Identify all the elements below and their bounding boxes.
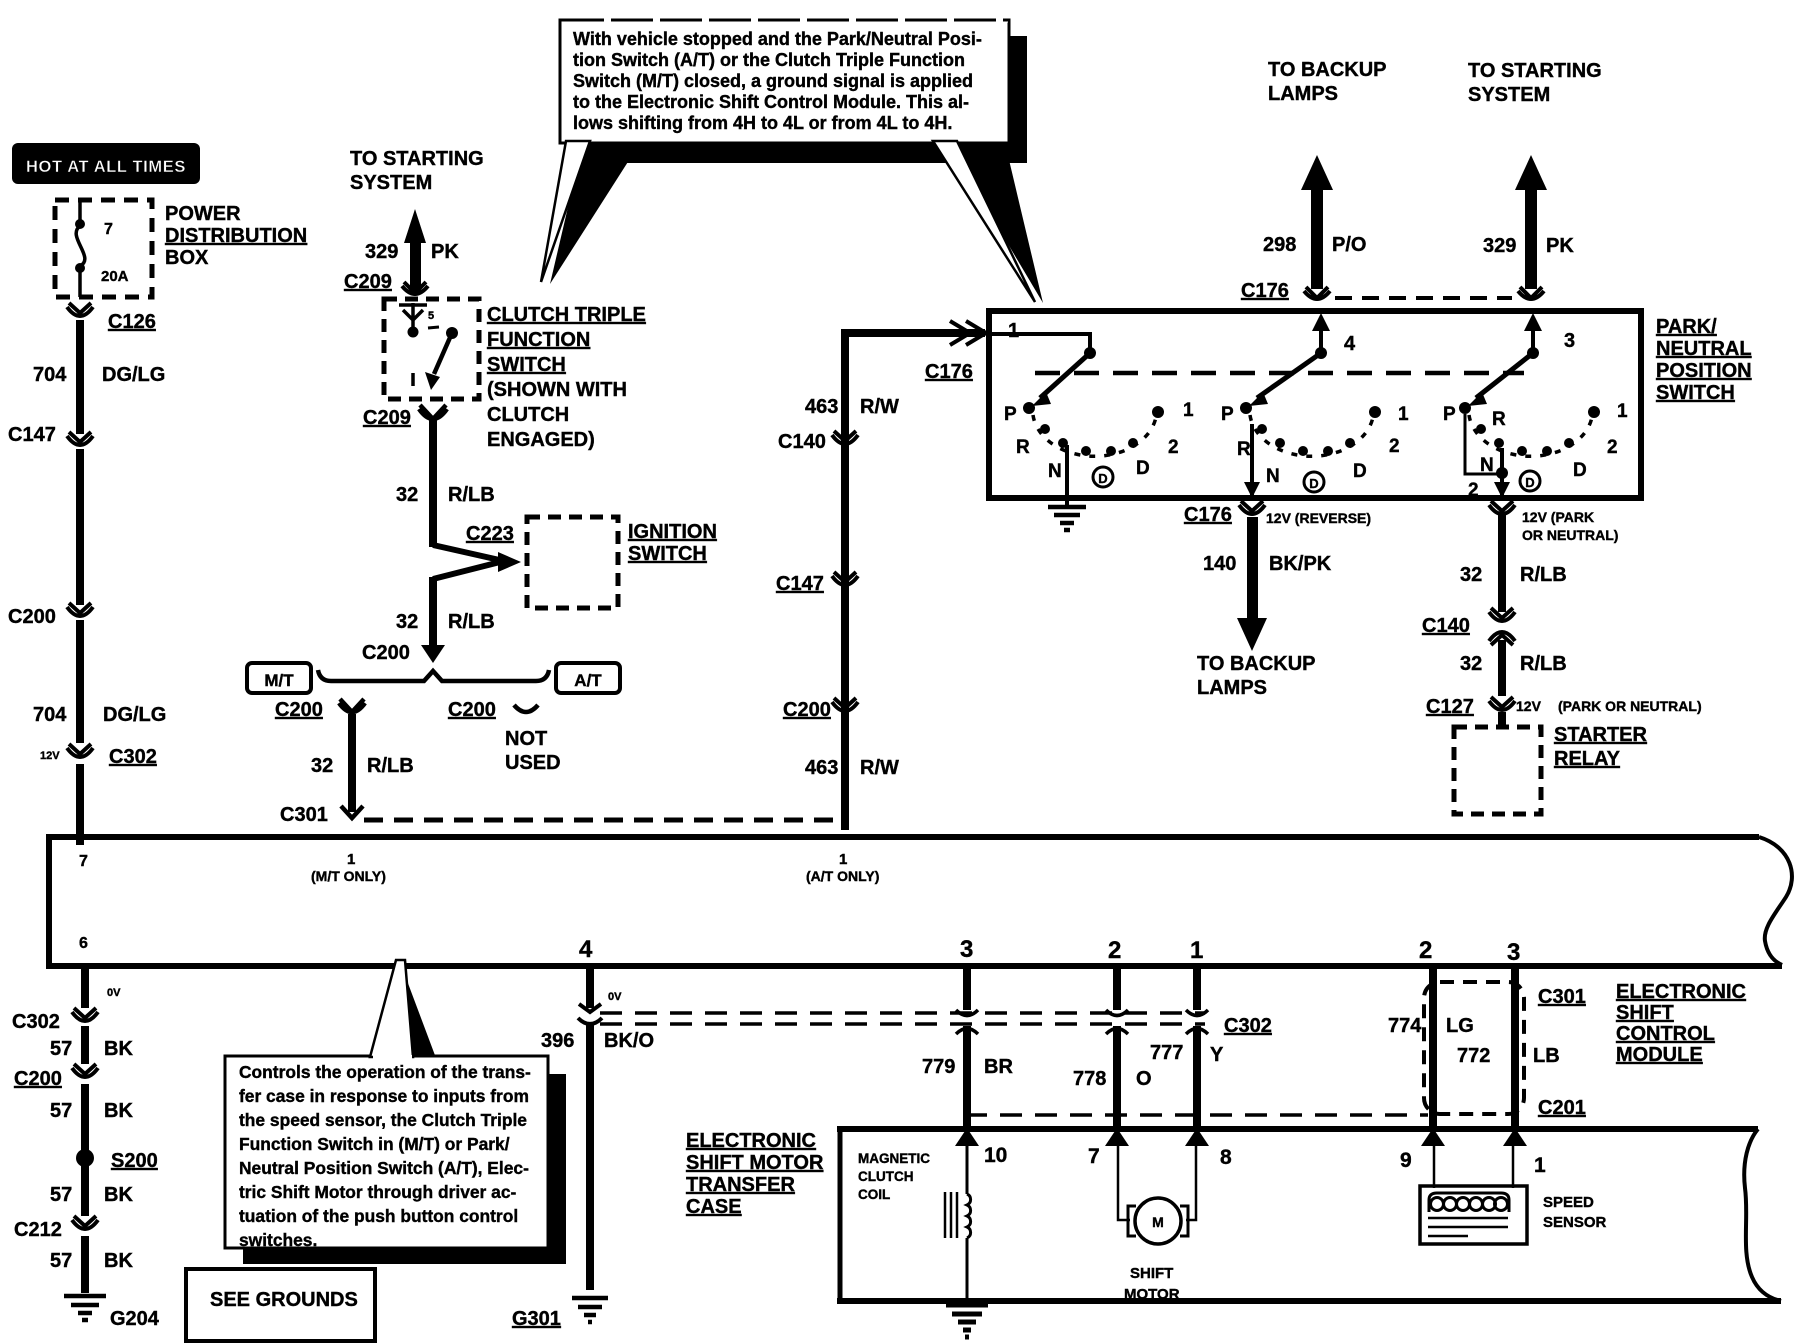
svg-text:SEE GROUNDS: SEE GROUNDS — [210, 1289, 358, 1311]
connector C209 bottom — [363, 405, 447, 429]
svg-text:32: 32 — [1460, 653, 1482, 675]
svg-text:32: 32 — [396, 484, 418, 506]
svg-text:9: 9 — [1400, 1149, 1412, 1172]
svg-text:7: 7 — [1088, 1145, 1100, 1168]
svg-text:fer case in response to inputs: fer case in response to inputs from — [239, 1086, 529, 1106]
svg-text:C200: C200 — [8, 606, 56, 628]
svg-text:2: 2 — [1419, 937, 1432, 964]
dashed connector face C201 lower — [965, 1113, 1428, 1117]
svg-text:298: 298 — [1263, 234, 1296, 256]
svg-text:ENGAGED): ENGAGED) — [487, 429, 595, 451]
wire 32 R/LB M/T branch — [280, 714, 414, 826]
svg-text:396: 396 — [541, 1030, 574, 1052]
svg-text:switches.: switches. — [239, 1230, 317, 1250]
svg-text:R/LB: R/LB — [448, 611, 495, 633]
splice S200 — [76, 1149, 158, 1172]
svg-text:D: D — [1309, 476, 1318, 491]
svg-text:BK: BK — [104, 1250, 133, 1272]
svg-text:57: 57 — [50, 1038, 72, 1060]
svg-text:704: 704 — [33, 364, 67, 386]
wire segment to C200 — [76, 449, 84, 605]
wire 32 R/LB lower right — [1460, 640, 1567, 696]
svg-text:BK/O: BK/O — [604, 1030, 654, 1052]
svg-text:M/T: M/T — [264, 671, 294, 690]
connector C302 below module — [12, 1008, 98, 1033]
svg-text:POWER: POWER — [165, 203, 241, 225]
svg-text:R/W: R/W — [860, 396, 899, 418]
wire 704 DG/LG lower — [33, 620, 166, 743]
wire 778 O pin 2 — [1073, 966, 1152, 1146]
svg-text:(SHOWN WITH: (SHOWN WITH — [487, 379, 627, 401]
svg-text:to the Electronic Shift Contro: to the Electronic Shift Control Module. … — [573, 92, 969, 112]
svg-text:CLUTCH: CLUTCH — [487, 404, 569, 426]
svg-text:329: 329 — [365, 241, 398, 263]
svg-text:OR NEUTRAL): OR NEUTRAL) — [1522, 527, 1618, 543]
svg-text:7: 7 — [79, 853, 88, 870]
svg-text:4: 4 — [579, 936, 593, 963]
electronic shift control module label — [1616, 981, 1746, 1066]
svg-text:12V (PARK: 12V (PARK — [1522, 509, 1594, 525]
wire 57 BK segment 4 — [50, 1236, 133, 1293]
svg-text:C200: C200 — [448, 699, 496, 721]
wire 772 LB pin 3 right — [1457, 966, 1560, 1146]
svg-text:DISTRIBUTION: DISTRIBUTION — [165, 225, 307, 247]
rotary switch wafer 2 — [1221, 313, 1409, 498]
svg-text:C209: C209 — [344, 271, 392, 293]
svg-text:C302: C302 — [12, 1011, 60, 1033]
svg-text:NOT: NOT — [505, 728, 547, 750]
power distribution box label — [165, 203, 307, 269]
svg-text:Controls the operation of the: Controls the operation of the trans- — [239, 1062, 531, 1082]
connector C200 left — [8, 603, 93, 628]
svg-text:the speed sensor, the Clutch T: the speed sensor, the Clutch Triple — [239, 1110, 527, 1130]
svg-text:STARTER: STARTER — [1554, 724, 1648, 746]
svg-text:C147: C147 — [776, 573, 824, 595]
svg-text:2: 2 — [1468, 480, 1479, 501]
svg-text:C302: C302 — [1224, 1015, 1272, 1037]
svg-text:2: 2 — [1607, 437, 1618, 458]
wire 140 BK/PK to backup lamps — [1197, 517, 1332, 699]
svg-text:774: 774 — [1388, 1015, 1422, 1037]
ground G301 — [512, 1298, 608, 1330]
svg-text:N: N — [1048, 461, 1062, 482]
svg-text:lows shifting from 4H to 4L or: lows shifting from 4H to 4L or from 4L t… — [573, 113, 952, 133]
svg-text:P/O: P/O — [1332, 234, 1366, 256]
svg-text:7: 7 — [104, 221, 113, 238]
svg-text:C200: C200 — [275, 699, 323, 721]
svg-text:C140: C140 — [1422, 615, 1470, 637]
svg-text:SHIFT MOTOR: SHIFT MOTOR — [686, 1152, 824, 1174]
wire 57 BK segment 1 — [50, 1026, 133, 1064]
svg-text:CASE: CASE — [686, 1196, 742, 1218]
svg-text:463: 463 — [805, 757, 838, 779]
svg-text:SHIFT: SHIFT — [1130, 1265, 1173, 1282]
svg-text:PARK/: PARK/ — [1656, 316, 1717, 338]
svg-text:O: O — [1136, 1068, 1152, 1090]
speed sensor — [1420, 1142, 1607, 1244]
double dashed connector face C302 — [600, 1013, 1272, 1037]
svg-text:TRANSFER: TRANSFER — [686, 1174, 795, 1196]
svg-text:C201: C201 — [1538, 1097, 1586, 1119]
svg-text:SYSTEM: SYSTEM — [1468, 84, 1550, 106]
svg-text:R/LB: R/LB — [1520, 653, 1567, 675]
svg-text:1: 1 — [347, 851, 355, 868]
svg-text:C140: C140 — [778, 431, 826, 453]
svg-text:TO STARTING: TO STARTING — [1468, 60, 1602, 82]
electronic shift motor transfer case label — [686, 1130, 824, 1218]
svg-text:FUNCTION: FUNCTION — [487, 329, 590, 351]
svg-text:BK/PK: BK/PK — [1269, 553, 1332, 575]
svg-text:P: P — [1221, 404, 1234, 425]
svg-text:CLUTCH: CLUTCH — [858, 1169, 914, 1184]
connector C176 reverse output — [1184, 501, 1371, 526]
svg-text:1: 1 — [1183, 400, 1194, 421]
svg-text:C223: C223 — [466, 523, 514, 545]
svg-text:0V: 0V — [608, 991, 622, 1003]
fuse 7 20A — [76, 200, 85, 297]
HOT AT ALL TIMES banner — [12, 143, 200, 184]
wire 779 BR pin 3 — [922, 966, 1013, 1146]
svg-text:C209: C209 — [363, 407, 411, 429]
svg-text:1: 1 — [1008, 320, 1019, 342]
svg-text:TO BACKUP: TO BACKUP — [1268, 59, 1387, 81]
svg-text:P: P — [1004, 404, 1017, 425]
connector C127 — [1426, 696, 1702, 718]
dashed connector face C176 — [1335, 296, 1512, 300]
svg-text:MAGNETIC: MAGNETIC — [858, 1151, 930, 1166]
svg-text:D: D — [1525, 475, 1534, 490]
svg-text:DG/LG: DG/LG — [102, 364, 165, 386]
wire to starting system 329 PK — [350, 148, 484, 291]
module pin 1 M/T only — [311, 851, 386, 884]
callout note top: ground signal explanation — [541, 20, 1043, 303]
wire 57 BK chain below module pin 6 — [85, 966, 121, 1008]
svg-text:0V: 0V — [107, 987, 121, 999]
svg-text:463: 463 — [805, 396, 838, 418]
svg-text:ELECTRONIC: ELECTRONIC — [686, 1130, 816, 1152]
svg-text:32: 32 — [396, 611, 418, 633]
svg-text:CLUTCH TRIPLE: CLUTCH TRIPLE — [487, 304, 646, 326]
dashed wire C301 to A/T branch — [364, 818, 845, 823]
brace under M/T A/T — [318, 670, 549, 681]
svg-text:M: M — [1152, 1214, 1164, 1230]
wire 32 R/LB lower — [362, 577, 495, 664]
svg-text:C200: C200 — [14, 1068, 62, 1090]
svg-text:C301: C301 — [280, 804, 328, 826]
rotary switch wafer 3 — [1443, 313, 1628, 501]
A/T tag — [556, 663, 620, 693]
clutch triple function switch C209 — [384, 299, 479, 399]
svg-text:1: 1 — [1190, 937, 1203, 964]
svg-text:779: 779 — [922, 1056, 955, 1078]
svg-text:tion Switch (A/T) or the Clutc: tion Switch (A/T) or the Clutch Triple F… — [573, 50, 965, 70]
connector C200 below module — [14, 1064, 98, 1090]
connector C209 top — [344, 271, 428, 294]
wire 777 Y pin 1 — [1150, 966, 1224, 1146]
svg-text:POSITION: POSITION — [1656, 360, 1752, 382]
svg-text:tuation of the push button con: tuation of the push button control — [239, 1206, 518, 1226]
svg-text:G301: G301 — [512, 1308, 561, 1330]
connector C140 center — [778, 431, 858, 453]
svg-text:SWITCH: SWITCH — [628, 543, 707, 565]
svg-text:R: R — [1492, 409, 1506, 430]
svg-text:32: 32 — [1460, 564, 1482, 586]
svg-text:MODULE: MODULE — [1616, 1044, 1703, 1066]
svg-text:HOT AT ALL TIMES: HOT AT ALL TIMES — [26, 158, 186, 176]
svg-text:NEUTRAL: NEUTRAL — [1656, 338, 1752, 360]
wire 704 DG/LG upper — [33, 320, 165, 434]
connector C212 — [14, 1216, 98, 1241]
svg-text:tric Shift Motor through driv: tric Shift Motor through driver ac- — [239, 1182, 516, 1202]
svg-text:SENSOR: SENSOR — [1543, 1214, 1607, 1231]
svg-text:C176: C176 — [1184, 504, 1232, 526]
svg-text:DG/LG: DG/LG — [103, 704, 166, 726]
svg-text:Y: Y — [1210, 1044, 1224, 1066]
svg-text:C200: C200 — [362, 642, 410, 664]
svg-text:3: 3 — [1507, 939, 1520, 966]
svg-text:Switch (M/T) closed, a ground: Switch (M/T) closed, a ground signal is … — [573, 71, 973, 91]
wire 774 LG pin 2 right — [1388, 966, 1474, 1146]
svg-text:772: 772 — [1457, 1045, 1490, 1067]
wire to starter relay — [1498, 712, 1506, 727]
connector C176 backup branch — [1241, 280, 1330, 302]
connector C200 center — [783, 698, 899, 779]
svg-text:2: 2 — [1168, 437, 1179, 458]
svg-text:IGNITION: IGNITION — [628, 521, 717, 543]
svg-text:TO BACKUP: TO BACKUP — [1197, 653, 1316, 675]
wire to backup lamps 298 P/O — [1263, 59, 1387, 289]
svg-text:LAMPS: LAMPS — [1268, 83, 1338, 105]
svg-text:BR: BR — [984, 1056, 1013, 1078]
svg-text:3: 3 — [1564, 330, 1575, 352]
svg-text:SHIFT: SHIFT — [1616, 1002, 1674, 1024]
svg-text:C212: C212 — [14, 1219, 62, 1241]
svg-text:BK: BK — [104, 1100, 133, 1122]
svg-text:SPEED: SPEED — [1543, 1194, 1594, 1211]
svg-text:C302: C302 — [109, 746, 157, 768]
svg-text:2: 2 — [1108, 937, 1121, 964]
svg-text:C176: C176 — [1241, 280, 1289, 302]
svg-text:BOX: BOX — [165, 247, 209, 269]
svg-text:D: D — [1353, 461, 1367, 482]
svg-text:20A: 20A — [101, 268, 129, 285]
svg-text:R: R — [1237, 439, 1251, 460]
ignition switch box — [527, 517, 717, 608]
wire into module pin 7 — [76, 764, 84, 845]
park/neutral position switch box — [989, 311, 1752, 498]
svg-text:Function Switch in (M/T) or Pa: Function Switch in (M/T) or Park/ — [239, 1134, 510, 1154]
svg-text:LB: LB — [1533, 1045, 1560, 1067]
svg-text:12V (REVERSE): 12V (REVERSE) — [1266, 510, 1371, 526]
svg-text:57: 57 — [50, 1100, 72, 1122]
svg-text:10: 10 — [984, 1144, 1007, 1167]
connector C302 left 12V — [40, 744, 157, 768]
svg-text:329: 329 — [1483, 235, 1516, 257]
svg-text:LAMPS: LAMPS — [1197, 677, 1267, 699]
svg-text:R/LB: R/LB — [367, 755, 414, 777]
svg-text:MOTOR: MOTOR — [1124, 1286, 1180, 1303]
svg-text:R: R — [1016, 437, 1030, 458]
svg-text:140: 140 — [1203, 553, 1236, 575]
connector break at C302 on 396 wire — [578, 1004, 602, 1024]
svg-text:57: 57 — [50, 1250, 72, 1272]
svg-text:3: 3 — [960, 936, 973, 963]
module pin 1 A/T only — [806, 851, 879, 884]
connector C147 — [8, 424, 93, 446]
branch arrow into ignition switch — [433, 545, 521, 579]
svg-text:N: N — [1266, 466, 1280, 487]
svg-text:R/W: R/W — [860, 757, 899, 779]
see grounds box — [186, 1269, 375, 1341]
svg-text:1: 1 — [839, 851, 847, 868]
svg-text:C200: C200 — [783, 699, 831, 721]
svg-text:G204: G204 — [110, 1308, 160, 1330]
magnetic clutch coil — [858, 1140, 971, 1303]
svg-text:R/LB: R/LB — [1520, 564, 1567, 586]
wire to starting system 329 PK right — [1468, 60, 1602, 299]
connector C140 right — [1422, 608, 1515, 645]
wire 32 R/LB upper — [396, 420, 495, 547]
svg-text:D: D — [1136, 458, 1150, 479]
svg-text:12V: 12V — [40, 750, 60, 762]
svg-text:(M/T ONLY): (M/T ONLY) — [311, 868, 386, 884]
svg-text:6: 6 — [79, 935, 88, 952]
svg-text:1: 1 — [1398, 404, 1409, 425]
ground under wafer 1 — [1048, 498, 1086, 530]
svg-text:LG: LG — [1446, 1015, 1474, 1037]
svg-text:778: 778 — [1073, 1068, 1106, 1090]
power distribution box F7 — [55, 200, 152, 297]
transfer case band — [837, 1126, 1781, 1304]
wire 57 BK segment 3 — [50, 1164, 133, 1216]
svg-text:SWITCH: SWITCH — [1656, 382, 1735, 404]
ground in transfer case — [946, 1305, 988, 1337]
svg-text:PK: PK — [1546, 235, 1574, 257]
svg-text:With vehicle stopped and the P: With vehicle stopped and the Park/Neutra… — [573, 29, 982, 49]
svg-text:A/T: A/T — [574, 671, 602, 690]
svg-text:C176: C176 — [925, 361, 973, 383]
svg-text:4: 4 — [1344, 333, 1356, 355]
svg-text:8: 8 — [1220, 1146, 1232, 1169]
clutch triple function switch label — [487, 304, 646, 451]
starter relay box — [1454, 724, 1648, 814]
wire 57 BK segment 2 — [50, 1084, 133, 1150]
svg-text:D: D — [1573, 460, 1587, 481]
svg-text:Neutral Position Switch (A/T),: Neutral Position Switch (A/T), Elec- — [239, 1158, 529, 1178]
wire 463 R/W riser — [805, 321, 986, 830]
connector C176 park/neutral output — [1489, 501, 1618, 543]
connector C147 center — [776, 572, 858, 595]
callout note: transfer case control description — [225, 960, 566, 1264]
wire 396 BK/O below module pin 4 — [541, 966, 654, 1290]
svg-text:D: D — [1098, 471, 1107, 486]
svg-text:704: 704 — [33, 704, 67, 726]
svg-text:COIL: COIL — [858, 1187, 890, 1202]
shift motor — [1118, 1142, 1196, 1303]
wire 32 R/LB upper right — [1460, 513, 1567, 612]
svg-text:C127: C127 — [1426, 696, 1474, 718]
svg-text:TO STARTING: TO STARTING — [350, 148, 484, 170]
svg-text:S200: S200 — [111, 1150, 158, 1172]
rotary switch wafer 1 — [992, 320, 1194, 498]
svg-text:1: 1 — [1534, 1154, 1546, 1177]
svg-text:C301: C301 — [1538, 986, 1586, 1008]
svg-text:32: 32 — [311, 755, 333, 777]
svg-text:12V: 12V — [1516, 698, 1542, 714]
M/T tag — [247, 663, 311, 693]
svg-text:C126: C126 — [108, 311, 156, 333]
svg-text:5: 5 — [428, 310, 434, 322]
svg-text:777: 777 — [1150, 1042, 1183, 1064]
svg-text:R/LB: R/LB — [448, 484, 495, 506]
ground G204 — [64, 1296, 160, 1330]
connector C200 A/T not used — [448, 699, 561, 774]
svg-text:(PARK OR NEUTRAL): (PARK OR NEUTRAL) — [1558, 698, 1702, 714]
svg-text:(A/T ONLY): (A/T ONLY) — [806, 868, 879, 884]
svg-text:SWITCH: SWITCH — [487, 354, 566, 376]
electronic shift control module band — [46, 834, 1792, 969]
svg-text:2: 2 — [1389, 436, 1400, 457]
svg-text:RELAY: RELAY — [1554, 748, 1621, 770]
svg-text:BK: BK — [104, 1038, 133, 1060]
svg-text:C147: C147 — [8, 424, 56, 446]
connector C200 M/T branch — [275, 699, 365, 721]
svg-text:57: 57 — [50, 1184, 72, 1206]
svg-text:BK: BK — [104, 1184, 133, 1206]
svg-text:P: P — [1443, 404, 1456, 425]
svg-text:SYSTEM: SYSTEM — [350, 172, 432, 194]
svg-text:CONTROL: CONTROL — [1616, 1023, 1715, 1045]
connector C126 — [67, 303, 156, 333]
svg-text:1: 1 — [1617, 401, 1628, 422]
svg-text:ELECTRONIC: ELECTRONIC — [1616, 981, 1746, 1003]
svg-text:USED: USED — [505, 752, 561, 774]
svg-text:PK: PK — [431, 241, 459, 263]
connector C201 dashed shell — [1424, 982, 1586, 1119]
